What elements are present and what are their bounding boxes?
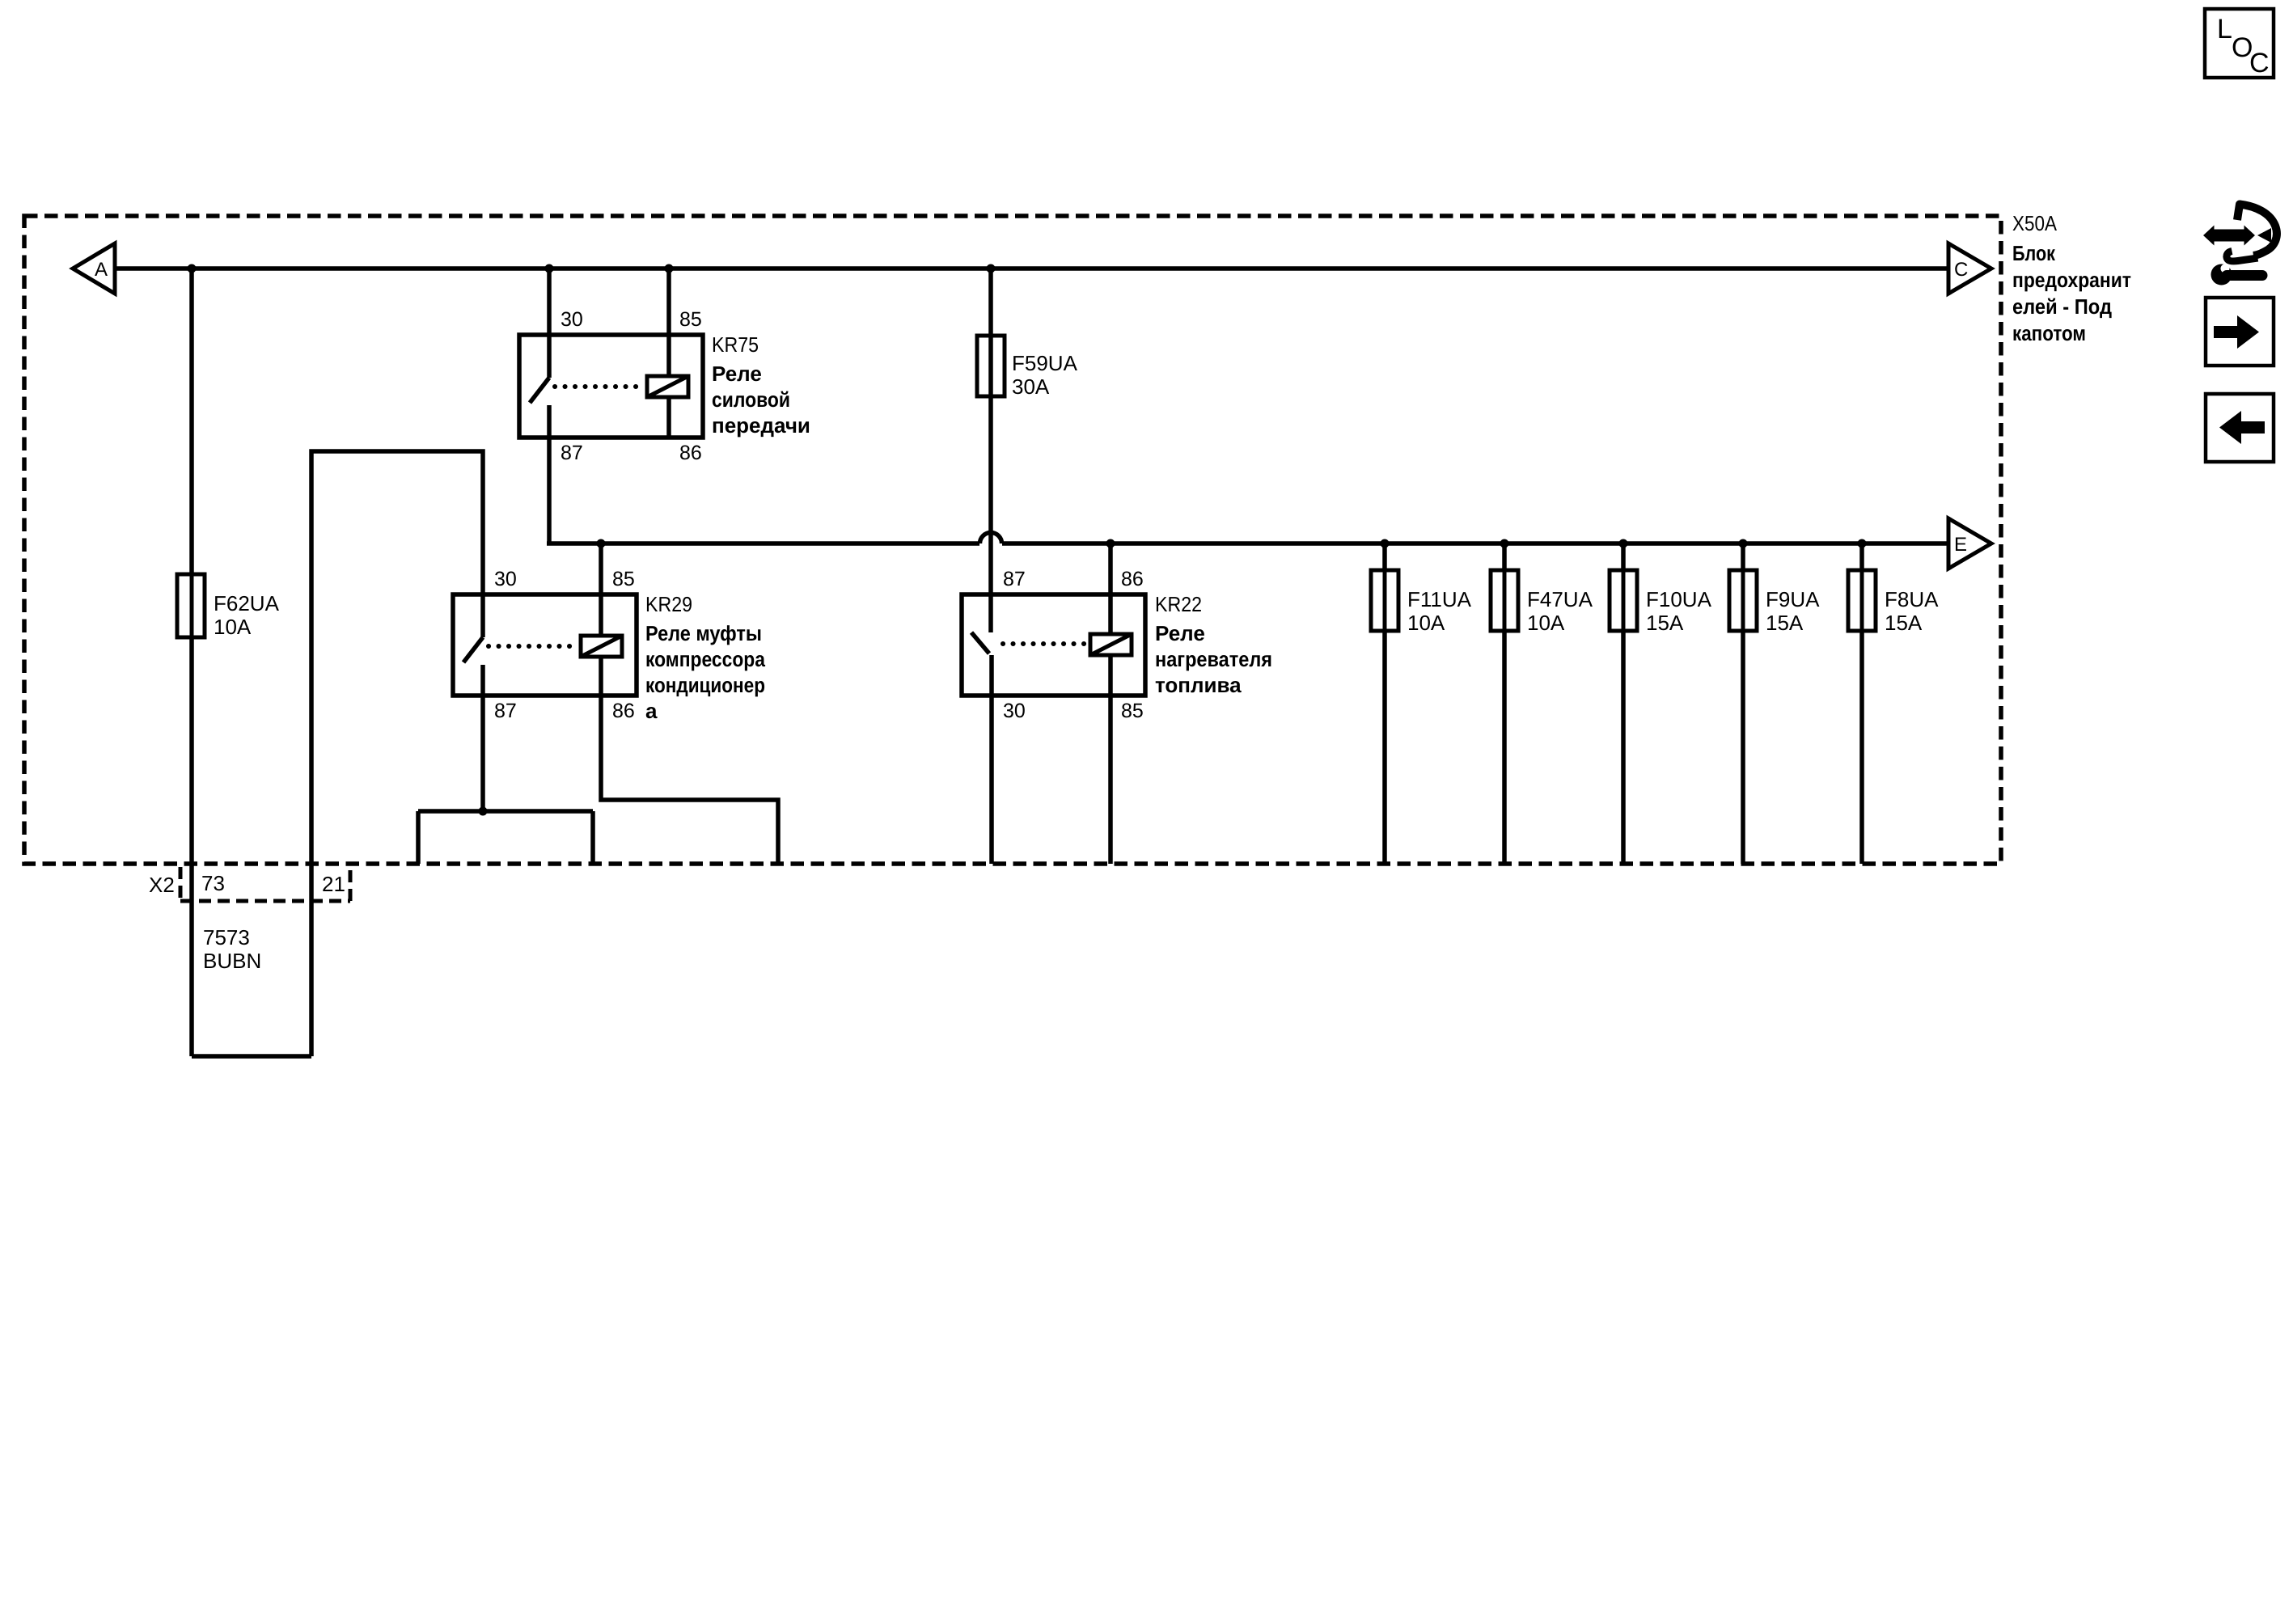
svg-text:15A: 15A [1766, 611, 1804, 635]
svg-text:F10UA: F10UA [1646, 587, 1712, 611]
svg-text:30: 30 [561, 308, 583, 331]
svg-text:21: 21 [322, 872, 345, 896]
KR75 pin 86 wire [666, 397, 671, 438]
svg-text:предохранит: предохранит [2012, 268, 2131, 292]
node on wire A at F62UA [188, 264, 197, 273]
node on wire A at KR75 pin 30 [545, 264, 554, 273]
off-page arrow E [1948, 518, 1991, 569]
KR29 coil dotted link [489, 644, 579, 649]
fuse F11UA body [1371, 570, 1398, 631]
svg-text:87: 87 [1003, 568, 1026, 590]
svg-text:L: L [2217, 14, 2232, 44]
KR75 pin 85 wire [666, 269, 671, 376]
relay KR75 [519, 335, 703, 438]
node on wire E at F47UA [1500, 539, 1509, 548]
svg-text:BUBN: BUBN [203, 949, 261, 973]
KR22 pin 30 wire [989, 655, 994, 864]
svg-text:KR75: KR75 [712, 332, 759, 357]
KR29 pin labels [494, 568, 635, 722]
KR29 output junction bar [418, 809, 593, 814]
svg-text:10A: 10A [1407, 611, 1445, 635]
KR75 coil [647, 376, 688, 397]
svg-text:15A: 15A [1885, 611, 1923, 635]
relay KR29 [453, 594, 637, 696]
svg-text:87: 87 [494, 700, 517, 722]
KR29 output stub right [590, 811, 595, 864]
svg-text:E: E [1954, 534, 1967, 556]
svg-text:F11UA: F11UA [1407, 587, 1472, 611]
KR75 pin labels [561, 308, 702, 464]
svg-text:C: C [1954, 259, 1968, 281]
svg-text:X50A: X50A [2012, 211, 2058, 235]
svg-text:елей - Под: елей - Под [2012, 294, 2112, 319]
node on wire E at KR29 pin 85 [597, 539, 606, 548]
svg-text:Реле: Реле [1155, 621, 1205, 645]
node at KR29 pin 87 junction [479, 807, 488, 816]
icon backward arrow [2206, 394, 2274, 462]
KR75 pin 87 wire down to wire E [547, 405, 552, 543]
fuse F59UA body [977, 336, 1005, 396]
KR29 pin 86 wire down and right to block edge [601, 657, 778, 864]
svg-text:Реле муфты: Реле муфты [645, 621, 762, 645]
node on wire E at KR22 pin 86 [1106, 539, 1115, 548]
fuse F10UA body [1610, 570, 1637, 631]
wire 7573 BUBN bottom loop [192, 1054, 311, 1059]
svg-text:кондиционер: кондиционер [645, 673, 765, 697]
svg-text:KR29: KR29 [645, 592, 692, 616]
svg-text:85: 85 [679, 308, 702, 331]
fuse F8UA branch wire [1859, 543, 1864, 864]
connector X2 dashed outline [180, 867, 350, 901]
svg-text:нагревателя: нагревателя [1155, 647, 1272, 671]
label X50A fuse block [2012, 211, 2131, 345]
KR22 pin 85 wire [1108, 655, 1113, 864]
KR29 output stub left [416, 811, 421, 864]
svg-text:F59UA: F59UA [1012, 351, 1078, 375]
KR29 pin 87 wire [480, 665, 485, 811]
fuse F10UA branch wire [1621, 543, 1626, 864]
svg-text:30: 30 [494, 568, 517, 590]
svg-text:10A: 10A [214, 615, 252, 639]
KR75 switch blade [530, 378, 549, 403]
svg-text:7573: 7573 [203, 925, 250, 949]
icon forward arrow [2206, 298, 2274, 366]
svg-text:силовой: силовой [712, 387, 790, 412]
svg-text:87: 87 [561, 442, 583, 464]
svg-text:Реле: Реле [712, 362, 762, 386]
fuse F62UA element wire [190, 574, 194, 637]
node on wire E at F9UA [1739, 539, 1748, 548]
fuse F11UA branch wire [1382, 543, 1387, 864]
svg-text:капотом: капотом [2012, 321, 2086, 345]
svg-text:F47UA: F47UA [1527, 587, 1593, 611]
svg-text:F8UA: F8UA [1885, 587, 1939, 611]
svg-text:10A: 10A [1527, 611, 1565, 635]
KR22 name label [1155, 592, 1272, 697]
KR29 switch blade [463, 637, 483, 662]
svg-text:F62UA: F62UA [214, 591, 280, 615]
svg-text:73: 73 [201, 871, 225, 895]
fuse F59UA element wire [989, 336, 993, 396]
node on wire E at F10UA [1619, 539, 1628, 548]
svg-text:85: 85 [612, 568, 635, 590]
KR29 coil [581, 636, 622, 657]
svg-text:KR22: KR22 [1155, 592, 1202, 616]
svg-text:компрессора: компрессора [645, 647, 765, 671]
fuse F9UA body [1729, 570, 1757, 631]
node on wire A at KR75 pin 85 [665, 264, 674, 273]
relay KR22 [962, 594, 1145, 696]
svg-text:86: 86 [612, 700, 635, 722]
svg-text:30A: 30A [1012, 374, 1050, 399]
node on wire E at F8UA [1858, 539, 1867, 548]
node on wire E at F11UA [1381, 539, 1390, 548]
wire from X2 pin 21 up and over to KR29 pin 30 [311, 451, 483, 1056]
svg-text:86: 86 [1121, 568, 1144, 590]
KR22 switch blade [971, 632, 989, 653]
KR29 pin 85 wire [599, 543, 603, 636]
svg-text:A: A [95, 259, 108, 281]
svg-text:топлива: топлива [1155, 673, 1242, 697]
svg-text:а: а [645, 699, 658, 723]
svg-text:передачи: передачи [712, 413, 810, 438]
KR22 coil [1090, 634, 1132, 655]
KR75 name label [712, 332, 810, 438]
icon power distribution [2203, 205, 2277, 285]
wire from A bus through F62UA and X2 pin 73 [189, 269, 194, 1056]
svg-text:X2: X2 [149, 873, 175, 897]
svg-text:F9UA: F9UA [1766, 587, 1820, 611]
off-page arrow A [73, 243, 115, 294]
wire E bus with hop over F59UA branch [547, 533, 1948, 544]
KR75 pin 30 wire [547, 269, 552, 378]
svg-text:Блок: Блок [2012, 241, 2056, 265]
wire from A bus through F59UA down to KR22 pin 87 [988, 269, 993, 632]
svg-text:85: 85 [1121, 700, 1144, 722]
fuse F47UA branch wire [1502, 543, 1507, 864]
fuse F8UA body [1848, 570, 1876, 631]
svg-text:30: 30 [1003, 700, 1026, 722]
wire 7573 BUBN label [203, 925, 261, 973]
svg-text:86: 86 [679, 442, 702, 464]
KR22 pin labels [1003, 568, 1144, 722]
off-page arrow C [1948, 243, 1991, 294]
KR22 pin 86 wire [1108, 543, 1113, 634]
connector X2 labels [149, 871, 345, 897]
KR75 coil dotted link [555, 384, 645, 389]
KR29 name label [645, 592, 765, 723]
fuse F62UA body [177, 574, 205, 637]
KR22 coil dotted link [1003, 641, 1089, 646]
svg-text:15A: 15A [1646, 611, 1684, 635]
LOC marker box [2205, 9, 2274, 78]
node on wire A at F59UA [987, 264, 996, 273]
fuse F9UA branch wire [1741, 543, 1745, 864]
svg-text:C: C [2249, 48, 2270, 78]
fuse block X50A dashed outline [24, 216, 2001, 864]
fuse F47UA body [1491, 570, 1518, 631]
wire A bus [115, 266, 1948, 271]
